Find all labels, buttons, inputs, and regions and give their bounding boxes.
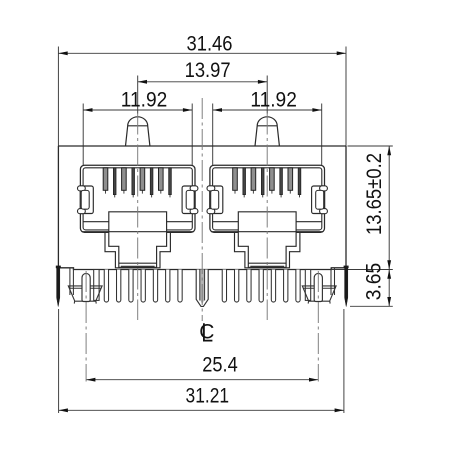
right port inner outline bbox=[213, 168, 322, 230]
svg-text:31.46: 31.46 bbox=[187, 32, 233, 55]
right port centerline bbox=[266, 114, 268, 321]
svg-text:11.92: 11.92 bbox=[121, 89, 168, 112]
right port floor shelf line bbox=[213, 221, 322, 223]
right latch boss dome bbox=[255, 117, 279, 146]
dimension 25.4 pin row spacing bbox=[86, 379, 318, 381]
left port inner outline bbox=[83, 168, 192, 230]
svg-text:3.65: 3.65 bbox=[363, 263, 386, 301]
left port right latch slot bbox=[182, 186, 198, 214]
right side bottom hardware cluster bbox=[222, 266, 348, 307]
dimension 3.65 pin length bbox=[350, 270, 393, 307]
right port right latch slot bbox=[312, 186, 328, 214]
right port latch notch fill bbox=[238, 212, 296, 267]
svg-text:11.92: 11.92 bbox=[250, 89, 297, 112]
svg-text:13.65±0.2: 13.65±0.2 bbox=[363, 153, 386, 235]
dimension 31.46 overall width bbox=[58, 47, 346, 147]
centerline symbol bbox=[199, 321, 214, 344]
right port contact pins 1-8 bbox=[233, 168, 301, 198]
global centerline bbox=[201, 98, 203, 321]
connector body left edge bbox=[57, 146, 59, 268]
connector body top edge bbox=[58, 145, 346, 147]
left port contact pins 1-8 bbox=[103, 168, 171, 198]
dimension 11.92 right port width bbox=[213, 104, 322, 166]
svg-text:25.4: 25.4 bbox=[202, 353, 238, 376]
right port notch tab bottom line bbox=[250, 265, 284, 267]
right port outer outline bbox=[210, 165, 325, 232]
left port left latch slot bbox=[78, 186, 94, 214]
connector body right edge bbox=[345, 146, 347, 268]
left latch boss dome bbox=[126, 117, 150, 146]
connector body bottom edge bbox=[58, 268, 346, 270]
dimension 13.97 port spacing bbox=[138, 76, 268, 114]
left port latch notch fill bbox=[109, 212, 167, 267]
right port notch outer step outline bbox=[235, 232, 300, 267]
right port bottom line across notch bbox=[211, 231, 323, 233]
left port floor shelf line bbox=[83, 221, 192, 223]
left port bottom line across notch bbox=[82, 231, 194, 233]
left port notch tab bottom line bbox=[121, 265, 155, 267]
right port left latch slot bbox=[207, 186, 223, 214]
center shield fork pin bbox=[196, 270, 208, 307]
left pin row centerline bbox=[85, 271, 87, 382]
svg-text:31.21: 31.21 bbox=[186, 385, 230, 408]
left port centerline bbox=[137, 114, 139, 321]
left port outer outline bbox=[80, 165, 195, 232]
dimension 31.21 bottom width bbox=[59, 309, 344, 413]
left port notch outer step outline bbox=[105, 232, 170, 267]
dimension 11.92 left port width bbox=[83, 104, 192, 166]
svg-text:13.97: 13.97 bbox=[185, 59, 231, 82]
dimension 13.65±0.2 body height bbox=[332, 146, 393, 270]
right pin row centerline bbox=[317, 271, 319, 382]
left side bottom hardware cluster bbox=[56, 266, 182, 307]
